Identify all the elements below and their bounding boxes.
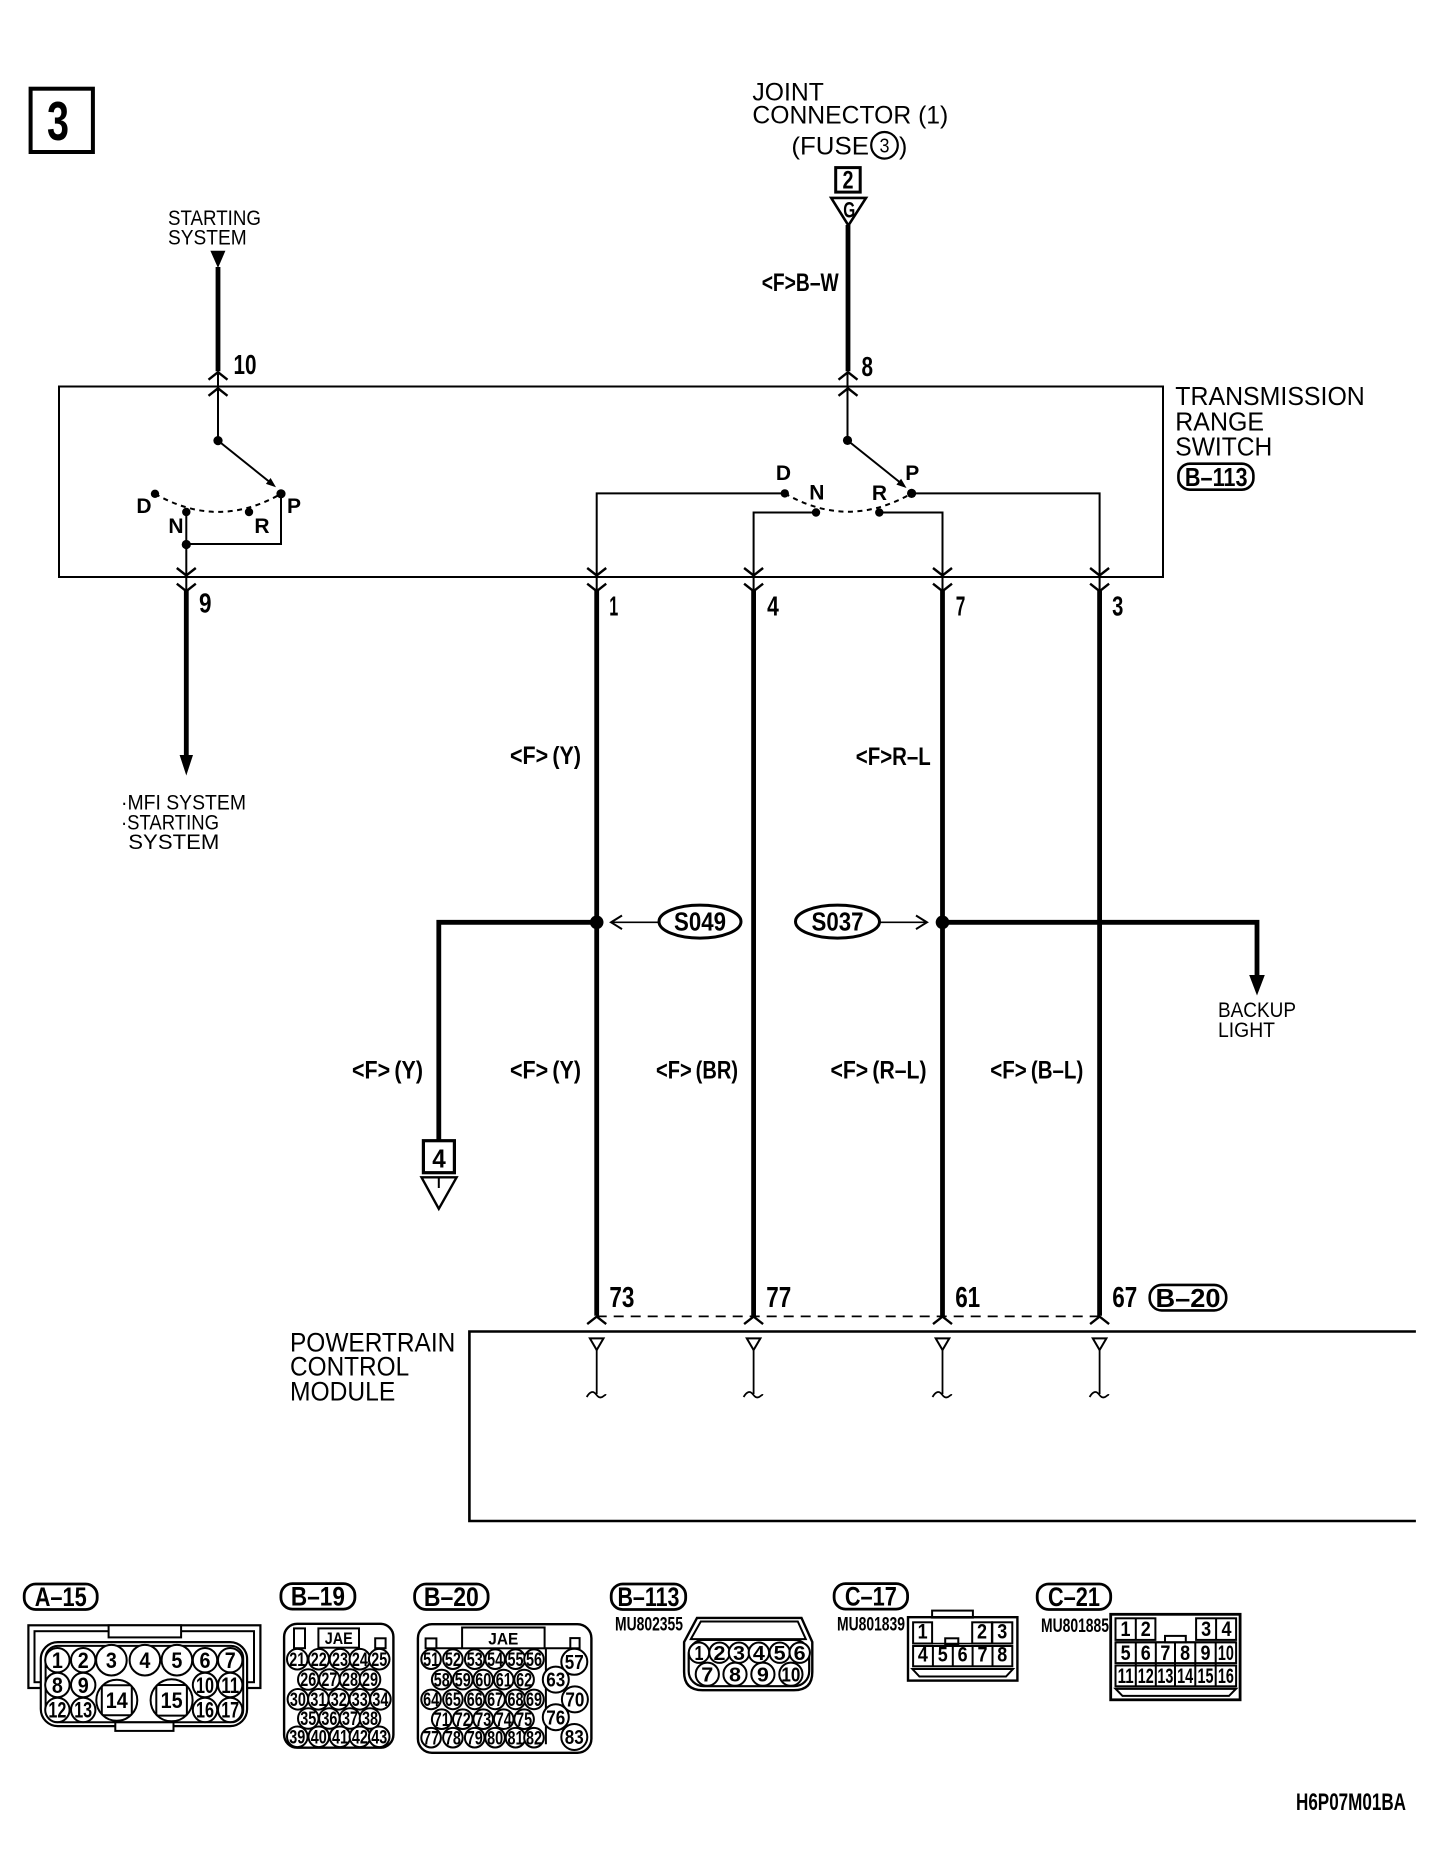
svg-text:10: 10 <box>781 1664 800 1686</box>
B-20 pin 67 <box>485 1690 505 1710</box>
wire: branch from S049 to ground ref 4 <box>439 922 597 1140</box>
svg-text:41: 41 <box>332 1728 348 1749</box>
svg-text:1: 1 <box>609 590 618 621</box>
connector A-15 drawing <box>28 1625 260 1688</box>
right switch dashed travel arc <box>785 493 912 511</box>
pin 4 connector symbol <box>744 568 763 576</box>
svg-text:16: 16 <box>1218 1665 1234 1688</box>
B-113 pin 7 <box>696 1663 719 1686</box>
B-19 pin 42 <box>350 1727 371 1748</box>
svg-text:SYSTEM: SYSTEM <box>128 831 219 854</box>
wire: starting system to TRS pin 10 <box>216 267 221 371</box>
right range switch: wire from pin 8 to pivot <box>847 372 849 441</box>
transmission range switch B-113 box <box>59 387 1163 578</box>
svg-text:<F>R–L: <F>R–L <box>856 743 931 771</box>
B-19 pin 21 <box>287 1649 308 1670</box>
ground ref triangle <box>438 1177 440 1188</box>
A-15 pin 3 <box>96 1645 127 1676</box>
svg-text:4: 4 <box>139 1648 151 1673</box>
svg-text:3: 3 <box>997 1621 1007 1644</box>
svg-text:64: 64 <box>423 1690 439 1711</box>
connector B-20 label <box>415 1584 489 1610</box>
A-15 pin 13 <box>71 1698 95 1722</box>
B-19 pin 31 <box>308 1689 329 1710</box>
B-20 pin 66 <box>465 1690 485 1710</box>
svg-text:6: 6 <box>200 1648 211 1673</box>
svg-text:67: 67 <box>487 1690 503 1711</box>
svg-text:33: 33 <box>352 1690 368 1711</box>
A-15 pin 15 <box>151 1679 193 1721</box>
svg-text:N: N <box>809 482 824 505</box>
svg-text:27: 27 <box>321 1670 337 1691</box>
svg-text:16: 16 <box>196 1698 214 1723</box>
svg-text:7: 7 <box>956 590 966 621</box>
svg-text:B–20: B–20 <box>424 1582 479 1612</box>
svg-text:15: 15 <box>161 1688 183 1713</box>
svg-text:81: 81 <box>508 1728 524 1749</box>
svg-text:5: 5 <box>171 1648 182 1673</box>
svg-text:14: 14 <box>106 1688 129 1713</box>
svg-text:12: 12 <box>48 1698 66 1723</box>
svg-text:7: 7 <box>1160 1642 1170 1665</box>
svg-text:5: 5 <box>1121 1642 1131 1665</box>
svg-text:7: 7 <box>225 1648 236 1673</box>
svg-text:40: 40 <box>311 1728 327 1749</box>
B-20 pin 53 <box>465 1649 485 1669</box>
svg-text:56: 56 <box>526 1650 542 1671</box>
svg-text:B–20: B–20 <box>1156 1283 1221 1313</box>
wire: R contact to pin 7 <box>879 513 942 592</box>
A-15 pin 7 <box>218 1648 242 1672</box>
A-15 pin 10 <box>193 1673 217 1697</box>
svg-text:MU801885: MU801885 <box>1041 1616 1109 1637</box>
A-15 pin 11 <box>218 1673 242 1697</box>
left range switch: wire from pin 10 to pivot <box>217 372 219 441</box>
B-20 pin 73 <box>473 1709 493 1729</box>
svg-text:N: N <box>168 515 183 538</box>
svg-text:A–15: A–15 <box>35 1582 87 1612</box>
svg-text:<F> (BR): <F> (BR) <box>656 1057 738 1085</box>
splice S049 junction <box>590 916 604 930</box>
svg-text:MODULE: MODULE <box>290 1376 395 1406</box>
svg-text:JAE: JAE <box>325 1629 353 1648</box>
svg-text:10: 10 <box>234 349 257 380</box>
svg-text:S037: S037 <box>812 907 864 937</box>
svg-text:4: 4 <box>918 1644 928 1667</box>
svg-text:43: 43 <box>371 1728 387 1749</box>
B-20 pin 79 <box>465 1728 485 1748</box>
svg-text:B–113: B–113 <box>1185 462 1248 492</box>
svg-text:D: D <box>136 495 151 518</box>
splice name S049 <box>659 905 741 938</box>
left switch blade to P <box>218 441 269 482</box>
splice S037 junction <box>936 916 950 930</box>
svg-text:61: 61 <box>496 1670 512 1691</box>
svg-text:21: 21 <box>289 1650 305 1671</box>
svg-text:<F> (R–L): <F> (R–L) <box>831 1057 927 1085</box>
B-20 pin 65 <box>443 1690 463 1710</box>
svg-text:CONNECTOR (1): CONNECTOR (1) <box>752 102 948 130</box>
splice name S037 <box>796 905 880 938</box>
B-20 pin 77 <box>421 1728 441 1748</box>
svg-text:77: 77 <box>766 1282 791 1314</box>
B-19 pin 43 <box>369 1727 390 1748</box>
svg-text:1: 1 <box>1121 1618 1131 1641</box>
svg-text:<F>B–W: <F>B–W <box>762 269 839 297</box>
svg-text:9: 9 <box>1201 1642 1211 1665</box>
right switch blade to P <box>848 440 900 482</box>
svg-text:C–17: C–17 <box>845 1582 897 1612</box>
svg-text:JAE: JAE <box>488 1629 518 1648</box>
wire: D contact to pin 1 <box>597 493 785 591</box>
B-20 pin 71 <box>432 1709 452 1729</box>
connector B-113 label <box>611 1584 686 1610</box>
svg-text:4: 4 <box>753 1643 766 1665</box>
A-15 pin 12 <box>45 1698 69 1722</box>
svg-text:52: 52 <box>445 1650 461 1671</box>
svg-text:8: 8 <box>729 1664 741 1686</box>
svg-text:3: 3 <box>733 1643 745 1665</box>
wire: P contact to pin 3 <box>912 493 1100 591</box>
svg-text:1: 1 <box>695 1643 704 1665</box>
B-113 pin 9 <box>751 1663 774 1686</box>
B-20 pin 81 <box>506 1728 526 1748</box>
pin 10 connector symbol <box>209 372 228 380</box>
svg-text:8: 8 <box>1180 1642 1190 1665</box>
pin 1 connector symbol <box>587 568 606 576</box>
B-19 pin 33 <box>350 1689 371 1710</box>
A-15 pin 17 <box>218 1698 242 1722</box>
B-19 pin 40 <box>309 1727 330 1748</box>
A-15 pin 9 <box>71 1673 95 1697</box>
B-20 pin 69 <box>524 1690 544 1710</box>
svg-text:2: 2 <box>78 1648 89 1673</box>
svg-text:2: 2 <box>714 1643 726 1665</box>
B-19 pin 34 <box>370 1689 391 1710</box>
svg-text:82: 82 <box>526 1728 542 1749</box>
svg-text:54: 54 <box>487 1650 503 1671</box>
B-19 pin 32 <box>329 1689 350 1710</box>
connector B-113 drawing <box>684 1618 812 1690</box>
svg-text:76: 76 <box>546 1707 565 1729</box>
svg-text:30: 30 <box>290 1690 306 1711</box>
svg-text:MU801839: MU801839 <box>837 1615 905 1636</box>
powertrain control module box <box>469 1332 1416 1522</box>
svg-text:3: 3 <box>106 1648 117 1673</box>
svg-text:60: 60 <box>475 1670 491 1691</box>
svg-text:9: 9 <box>757 1664 769 1686</box>
svg-text:79: 79 <box>467 1728 483 1749</box>
B-19 pin 23 <box>330 1649 351 1670</box>
wire: TRS pin 7 to PCM pin 61, <F>(R-L) <box>940 591 945 1316</box>
svg-text:53: 53 <box>467 1650 483 1671</box>
svg-text:70: 70 <box>565 1690 584 1712</box>
svg-text:9: 9 <box>199 588 212 619</box>
sheet number box 3 <box>31 89 93 152</box>
A-15 pin 14 <box>96 1680 137 1721</box>
svg-text:<F> (Y): <F> (Y) <box>510 1057 581 1085</box>
svg-text:3: 3 <box>47 90 69 152</box>
right switch contact R <box>875 508 883 516</box>
svg-text:73: 73 <box>609 1282 634 1314</box>
connector C-17 drawing <box>932 1611 973 1618</box>
B-19 pin 22 <box>309 1649 330 1670</box>
B-20 pin 76 <box>543 1704 569 1730</box>
wire: P contact down and left to junction <box>186 494 281 544</box>
svg-text:(FUSE: (FUSE <box>791 133 869 161</box>
PCM pin 67 connector symbol <box>1090 1317 1109 1325</box>
svg-text:13: 13 <box>74 1698 92 1723</box>
joint connector triangle G <box>831 198 866 226</box>
svg-text:5: 5 <box>938 1644 948 1667</box>
svg-text:<F> (B–L): <F> (B–L) <box>990 1057 1083 1085</box>
B-19 pin 38 <box>360 1708 381 1729</box>
svg-text:SYSTEM: SYSTEM <box>168 227 247 250</box>
B-20 pin 55 <box>506 1649 526 1669</box>
B-19 pin 36 <box>319 1708 340 1729</box>
svg-text:78: 78 <box>445 1728 461 1749</box>
svg-text:9: 9 <box>78 1673 89 1698</box>
A-15 pin 6 <box>193 1648 217 1672</box>
connector C-21 label <box>1037 1584 1111 1610</box>
svg-text:<F> (Y): <F> (Y) <box>352 1057 423 1085</box>
svg-text:80: 80 <box>487 1728 503 1749</box>
left switch contact P <box>276 489 285 498</box>
left switch contact R <box>245 508 253 516</box>
B-20 pin 60 <box>473 1670 493 1690</box>
svg-text:10: 10 <box>1218 1642 1234 1665</box>
svg-text:69: 69 <box>526 1690 542 1711</box>
svg-text:3: 3 <box>1112 590 1123 621</box>
B-20 pin 63 <box>543 1667 569 1693</box>
svg-text:28: 28 <box>342 1670 358 1691</box>
B-20 pin 83 <box>561 1724 587 1750</box>
svg-text:C–21: C–21 <box>1048 1582 1100 1612</box>
svg-text:59: 59 <box>455 1670 471 1691</box>
PCM pin 61 connector symbol <box>933 1317 952 1325</box>
svg-text:LIGHT: LIGHT <box>1218 1018 1275 1042</box>
wire: N contact to pin 4 <box>754 513 816 592</box>
svg-text:B–19: B–19 <box>291 1582 345 1612</box>
B-19 pin 41 <box>330 1727 351 1748</box>
svg-text:25: 25 <box>371 1650 387 1671</box>
B-19 pin 35 <box>298 1708 319 1729</box>
svg-text:77: 77 <box>423 1728 439 1749</box>
B-20 pin 68 <box>506 1690 526 1710</box>
B-19 pin 39 <box>287 1727 308 1748</box>
svg-text:P: P <box>287 495 301 518</box>
B-113 pin 10 <box>779 1663 802 1686</box>
B-113 pin 5 <box>770 1643 790 1663</box>
svg-text:4: 4 <box>1222 1618 1232 1641</box>
svg-text:2: 2 <box>843 166 854 194</box>
connector B-19 drawing <box>284 1624 393 1748</box>
svg-text:2: 2 <box>977 1621 987 1644</box>
joint connector terminal box 2 <box>836 168 861 193</box>
svg-text:SWITCH: SWITCH <box>1175 432 1272 462</box>
junction dot below N <box>182 540 191 549</box>
right switch contact P <box>907 489 916 498</box>
svg-text:7: 7 <box>701 1664 713 1686</box>
B-20 pin 52 <box>443 1649 463 1669</box>
pin 9 connector symbol <box>177 568 196 576</box>
B-19 pin 27 <box>319 1669 340 1690</box>
PCM pin 73 connector symbol <box>587 1317 606 1325</box>
B-20 pin 72 <box>453 1709 473 1729</box>
svg-text:8: 8 <box>52 1673 63 1698</box>
svg-text:14: 14 <box>1177 1665 1193 1688</box>
B-20 pin 78 <box>443 1728 463 1748</box>
svg-text:12: 12 <box>1138 1665 1154 1688</box>
svg-text:MU802355: MU802355 <box>615 1615 683 1636</box>
svg-text:63: 63 <box>546 1670 565 1692</box>
A-15 pin 16 <box>193 1698 217 1722</box>
svg-text:8: 8 <box>862 351 874 382</box>
B-20 pin 75 <box>514 1709 534 1729</box>
svg-text:17: 17 <box>221 1698 239 1723</box>
PCM internal pin symbol at x=1099.6 <box>1093 1338 1107 1350</box>
connector B-20 drawing <box>418 1624 592 1753</box>
svg-text:15: 15 <box>1198 1665 1214 1688</box>
B-20 pin 61 <box>494 1670 514 1690</box>
left switch dashed travel arc <box>155 494 281 512</box>
svg-text:51: 51 <box>423 1650 439 1671</box>
svg-text:29: 29 <box>362 1670 378 1691</box>
svg-text:R: R <box>872 482 887 505</box>
svg-text:34: 34 <box>372 1690 388 1711</box>
pin 8 connector symbol <box>839 372 858 380</box>
B-113 pin 2 <box>709 1643 729 1663</box>
A-15 pin 8 <box>45 1673 69 1697</box>
svg-text:66: 66 <box>467 1690 483 1711</box>
svg-text:3: 3 <box>880 136 890 158</box>
B-20 pin 80 <box>485 1728 505 1748</box>
PCM pin 77 connector symbol <box>744 1317 763 1325</box>
svg-text:3: 3 <box>1201 1618 1211 1641</box>
svg-text:5: 5 <box>774 1643 786 1665</box>
B-113 pin 6 <box>790 1643 810 1663</box>
svg-text:1: 1 <box>918 1621 928 1644</box>
svg-text:83: 83 <box>565 1727 584 1749</box>
PCM internal pin symbol at x=596.7 <box>590 1338 604 1350</box>
svg-text:4: 4 <box>432 1144 446 1174</box>
svg-text:6: 6 <box>1141 1642 1151 1665</box>
svg-text:22: 22 <box>311 1650 327 1671</box>
svg-text:57: 57 <box>565 1652 584 1674</box>
svg-text:D: D <box>776 462 791 485</box>
A-15 pin 1 <box>45 1648 69 1672</box>
svg-text:58: 58 <box>434 1670 450 1691</box>
svg-text:10: 10 <box>196 1673 214 1698</box>
B-20 pin 51 <box>421 1649 441 1669</box>
svg-text:68: 68 <box>508 1690 524 1711</box>
A-15 pin 4 <box>130 1645 161 1676</box>
svg-text:67: 67 <box>1112 1282 1137 1314</box>
connector C-21 drawing <box>1111 1614 1240 1700</box>
B-19 pin 24 <box>350 1649 371 1670</box>
left switch contact N <box>182 508 190 516</box>
wire: joint connector to TRS pin 8, <F>B-W <box>846 225 851 371</box>
svg-text:65: 65 <box>445 1690 461 1711</box>
pin 7 connector symbol <box>933 568 952 576</box>
wire: branch from S037 to backup light <box>943 922 1258 976</box>
ground/joint ref terminal box 4 <box>423 1141 454 1173</box>
wire: TRS pin 4 to PCM pin 77, <F>(BR) <box>751 591 756 1316</box>
B-20 pin 82 <box>524 1728 544 1748</box>
B-113 pin 3 <box>729 1643 749 1663</box>
right switch pivot <box>843 436 852 445</box>
A-15 pin 5 <box>162 1645 193 1676</box>
B-19 pin 30 <box>288 1689 309 1710</box>
svg-text:B–113: B–113 <box>617 1582 679 1612</box>
svg-text:P: P <box>905 462 919 485</box>
svg-text:8: 8 <box>997 1644 1007 1667</box>
connector B-19 label <box>281 1584 355 1610</box>
svg-text:1: 1 <box>52 1648 63 1673</box>
pin 3 connector symbol <box>1090 568 1109 576</box>
connector C-17 label <box>834 1584 908 1610</box>
svg-text:62: 62 <box>516 1670 532 1691</box>
svg-text:39: 39 <box>289 1728 305 1749</box>
B-19 pin 28 <box>340 1669 361 1690</box>
right switch contact D <box>781 489 789 497</box>
dashed connector line across PCM pins <box>597 1315 1100 1317</box>
wire: TRS pin 1 to PCM pin 73, <F>(Y) <box>594 591 599 1316</box>
right switch contact N <box>812 508 820 516</box>
PCM internal pin symbol at x=942.5 <box>936 1338 950 1350</box>
connector A-15 label <box>24 1584 97 1610</box>
connector ref B-20 (pin row) <box>1150 1285 1227 1311</box>
svg-text:24: 24 <box>352 1650 368 1671</box>
B-19 pin 25 <box>369 1649 390 1670</box>
svg-text:S049: S049 <box>674 907 726 937</box>
B-20 pin 64 <box>421 1690 441 1710</box>
B-20 pin 54 <box>485 1649 505 1669</box>
svg-text:11: 11 <box>221 1673 239 1698</box>
svg-text:26: 26 <box>300 1670 316 1691</box>
wire: pin 9 down to MFI/starting system <box>184 591 189 756</box>
svg-text:4: 4 <box>767 590 779 621</box>
svg-text:11: 11 <box>1118 1665 1134 1688</box>
svg-text:13: 13 <box>1157 1665 1173 1688</box>
B-19 pin 26 <box>298 1669 319 1690</box>
B-20 pin 56 <box>524 1649 544 1669</box>
svg-text:): ) <box>899 133 907 161</box>
svg-text:6: 6 <box>958 1644 968 1667</box>
wire: TRS pin 3 to PCM pin 67, <F>(B-L) <box>1097 591 1102 1316</box>
wire: N contact down to junction <box>185 512 187 591</box>
svg-text:H6P07M01BA: H6P07M01BA <box>1296 1789 1406 1816</box>
svg-text:R: R <box>254 515 269 538</box>
left switch pivot <box>213 436 222 445</box>
svg-text:<F> (Y): <F> (Y) <box>510 742 581 770</box>
B-20 pin 62 <box>514 1670 534 1690</box>
B-113 pin 8 <box>723 1663 746 1686</box>
B-20 pin 70 <box>562 1686 588 1712</box>
svg-text:42: 42 <box>352 1728 368 1749</box>
svg-text:55: 55 <box>508 1650 524 1671</box>
B-113 pin 1 <box>689 1643 709 1663</box>
connector ref B-113 <box>1178 464 1253 490</box>
B-20 pin 59 <box>453 1670 473 1690</box>
B-19 pin 37 <box>340 1708 361 1729</box>
B-20 pin 58 <box>432 1670 452 1690</box>
PCM internal pin symbol at x=753.6 <box>747 1338 761 1350</box>
B-20 pin 74 <box>494 1709 514 1729</box>
left switch contact D <box>151 490 159 498</box>
svg-text:6: 6 <box>794 1643 806 1665</box>
svg-text:31: 31 <box>310 1690 326 1711</box>
